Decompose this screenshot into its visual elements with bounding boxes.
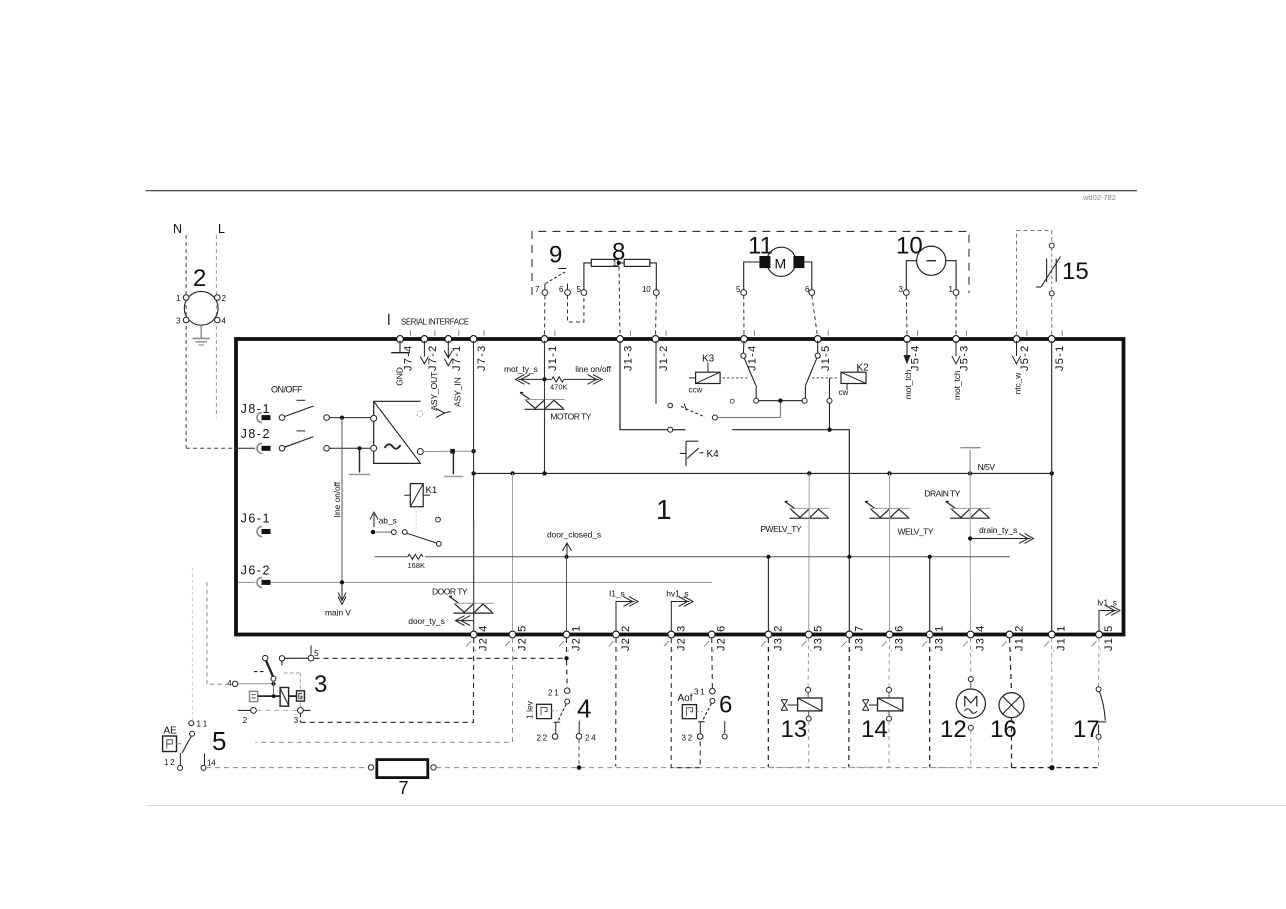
svg-text:door_ty_s: door_ty_s [408, 616, 444, 626]
wire J1-2 heavy dashed vertical to lamp [1010, 638, 1012, 692]
drain_ty_s junction dot [968, 536, 972, 540]
svg-text:J5-4: J5-4 [910, 344, 922, 371]
relay K2 coil [841, 366, 866, 390]
resistor pack 8 [577, 239, 660, 296]
svg-text:,: , [1100, 644, 1102, 653]
pin J5-4 (top edge) [904, 331, 922, 372]
switch ON/OFF (J8-1) [271, 385, 371, 421]
triac WELV_TY [865, 501, 910, 518]
wire J1-3 vertical to K4 contact line [620, 341, 668, 430]
NTC 15 [1036, 243, 1089, 296]
pin J1-2 (bottom edge) [1002, 624, 1026, 652]
svg-text:PWELV_TY: PWELV_TY [760, 524, 802, 534]
relay common wire [759, 400, 802, 402]
pin J3-2 (bottom edge) [761, 624, 785, 652]
drain pump 12 [930, 677, 986, 768]
i1_s arrow [616, 597, 638, 631]
svg-text:J7-4: J7-4 [403, 344, 415, 371]
K2 lower contact [827, 378, 832, 430]
wire J3-6 dashed vertical [888, 638, 891, 687]
junction dot rail motor triac [542, 471, 546, 475]
svg-text:J1-3: J1-3 [623, 344, 635, 371]
mot_tch arrow (J5-4) filled [903, 341, 910, 365]
svg-text:AE: AE [164, 726, 178, 737]
svg-text:WELV_TY: WELV_TY [898, 527, 934, 537]
pin J3-1 (bottom edge) [922, 624, 946, 652]
drain_ty_s arrow [970, 534, 1033, 544]
pressure switch AE 5 [163, 720, 217, 771]
wire J1-2 vertical [655, 341, 657, 404]
K1 linkage dotted [415, 507, 417, 530]
junction dot ab_s [371, 530, 375, 534]
svg-text:14: 14 [207, 759, 216, 768]
svg-text:1 2: 1 2 [164, 758, 175, 767]
svg-text:,: , [474, 644, 476, 653]
wire lamp to bus heavy dashed [1011, 718, 1013, 768]
K4 changeover contact circle [668, 403, 673, 408]
svg-text:N/5V: N/5V [978, 462, 996, 472]
svg-text:,: , [930, 644, 932, 653]
wire N dashed horizontal to J8-2 [186, 447, 237, 449]
wire resistor pin10 to J1-2 dashed [655, 295, 658, 335]
svg-text:J6-1: J6-1 [241, 512, 271, 526]
svg-text:L: L [218, 222, 225, 236]
junction dot pin5 line at J2-1 [564, 656, 568, 660]
svg-text:GND: GND [395, 367, 405, 386]
wire J3-4 dashed vertical [970, 638, 972, 677]
wire resistor junction to J1-3 dashed [619, 267, 620, 336]
svg-text:main V: main V [325, 608, 351, 618]
triac DRAIN_TY [946, 501, 991, 518]
pin J1-3 (top edge) [617, 331, 635, 372]
svg-text:line on/off: line on/off [575, 364, 611, 374]
svg-text:15: 15 [1062, 258, 1089, 285]
junction dot line on/off at J6-2 wire [340, 580, 344, 584]
pin J1-2 (top edge) [652, 331, 670, 372]
junction dot output to J7-3 line [471, 449, 475, 453]
pin J3-6 (bottom edge) [882, 624, 906, 652]
N/5V rail symbol [960, 448, 980, 474]
switch (J8-2) [279, 431, 371, 451]
svg-text:J7-1: J7-1 [451, 344, 463, 371]
pin J2-4 (bottom edge) [466, 624, 490, 652]
wire J7-3 vertical (full height) [473, 341, 475, 631]
solder square on output [450, 449, 455, 454]
svg-text:ASY_OUT: ASY_OUT [429, 372, 439, 411]
wire J3-7 heavy dashed vertical [848, 638, 851, 767]
junction dot rail left end [471, 471, 475, 475]
svg-text:16: 16 [990, 716, 1017, 743]
svg-text:4: 4 [577, 694, 591, 724]
wire J3-7 vertical lower [848, 557, 850, 631]
svg-text:J2-6: J2-6 [716, 624, 728, 651]
svg-text:7: 7 [399, 778, 409, 798]
svg-text:1: 1 [656, 494, 672, 525]
svg-text:J2-3: J2-3 [675, 624, 687, 651]
triac DOOR_TY [449, 596, 494, 613]
hv1_s arrow [671, 597, 693, 631]
converter output wire [423, 450, 471, 452]
wire switch9 pin7 to J1-1 dashed [544, 295, 546, 335]
svg-text:mot_ty_s: mot_ty_s [504, 364, 538, 374]
lamp 16 [990, 693, 1024, 743]
wire L dashed vertical [215, 235, 217, 418]
svg-text:J5-2: J5-2 [1019, 344, 1031, 371]
wire J6-2 horizontal [271, 581, 712, 583]
wire switch9 pin6 to resistor pin5 dashed U [568, 295, 584, 322]
wire N dashed vertical [185, 235, 187, 448]
svg-text:ntc_w: ntc_w [1013, 372, 1023, 395]
door_ty_s arrow [456, 616, 474, 626]
pin J2-1 (bottom edge) [559, 624, 583, 652]
pin J7-4 (top edge) [397, 331, 415, 372]
pin J2-6 (bottom edge) [704, 624, 728, 652]
bus dashed left segment [206, 767, 368, 769]
ab_s arrow [370, 512, 378, 527]
wire J3-1 heavy dashed vertical [929, 638, 931, 768]
svg-text:J1-2: J1-2 [658, 344, 670, 371]
junction dot rail pwelv [807, 471, 811, 475]
junction dot K2 to K4 line [827, 428, 831, 432]
K4 contact fixed circle [668, 427, 673, 432]
dashed J2-5 return [255, 638, 512, 742]
svg-text:J3-6: J3-6 [894, 624, 906, 651]
K1 blade end circle [436, 541, 441, 546]
svg-text:K2: K2 [857, 363, 870, 374]
junction dot rail drain [968, 471, 972, 475]
svg-text:,: , [617, 644, 619, 653]
line on/off vertical wire [341, 418, 343, 583]
svg-text:DOOR TY: DOOR TY [432, 587, 468, 597]
motor 11 [736, 233, 815, 296]
wire J6-2 loop to door lock pin4 [207, 582, 232, 684]
svg-text:K3: K3 [702, 354, 715, 365]
svg-text:1 lev: 1 lev [525, 700, 535, 719]
K4 changeover blade (dashed) [681, 407, 705, 418]
pin J2-5 (bottom edge) [505, 624, 529, 652]
motor reverse switch (right, J1-5) [802, 341, 820, 403]
lv1_s arrow [1099, 606, 1120, 631]
wire blade to relay common [717, 403, 780, 418]
wire J3-2 vertical [767, 557, 769, 631]
junction dot on J8-2 wire [357, 446, 361, 450]
svg-text:Aof: Aof [678, 693, 693, 704]
frame: top rule [146, 190, 1138, 192]
wire J2-1 vertical [566, 557, 568, 631]
junction dot 168K line J2-1 [564, 555, 568, 559]
wire door lock pin5 dashed to J2-1 column [315, 657, 567, 659]
svg-text:J3-1: J3-1 [934, 624, 946, 651]
wire J2-4 dashed vertical [300, 638, 473, 722]
svg-text:,: , [513, 644, 515, 653]
svg-text:ab_s: ab_s [379, 516, 397, 526]
svg-text:drain_ty_s: drain_ty_s [979, 525, 1017, 535]
mains filter 2 [176, 265, 227, 326]
wire J2-3 dashed loop to Aof [671, 638, 700, 768]
svg-text:ASY_IN: ASY_IN [453, 377, 463, 407]
svg-text:10: 10 [896, 233, 923, 260]
faint feed line to AE switch [191, 568, 193, 721]
svg-text:J2-2: J2-2 [620, 624, 632, 651]
svg-text:12: 12 [940, 716, 967, 743]
junction dot on J8-1 wire [340, 416, 344, 420]
pin J3-4 (bottom edge) [963, 624, 987, 652]
svg-text:11: 11 [748, 233, 773, 260]
K1 switch common wire [375, 531, 391, 533]
door switch 9 [535, 242, 570, 296]
K4 blade end circle [712, 415, 717, 420]
K1 switch blade [407, 533, 436, 543]
svg-text:J8-2: J8-2 [241, 427, 271, 441]
bus dashed mid segment [436, 767, 1010, 769]
N/5V rail [474, 472, 1052, 474]
door lock 3 [227, 646, 327, 726]
top accessory dashed box [532, 231, 969, 295]
svg-text:mot_tch: mot_tch [903, 369, 913, 399]
door open switch 17 [1073, 687, 1106, 768]
valve 13 [768, 687, 822, 767]
level switch 4 [525, 688, 597, 770]
svg-text:SERIAL INTERFACE: SERIAL INTERFACE [401, 318, 469, 327]
svg-text:J1-2: J1-2 [1014, 624, 1026, 651]
svg-text:J7-3: J7-3 [476, 344, 488, 371]
svg-text:J3-5: J3-5 [813, 624, 825, 651]
main control module box (1) [236, 339, 1124, 635]
svg-text:line on/off: line on/off [332, 481, 342, 517]
pressure switch Aof 6 [678, 688, 733, 743]
wire welv triac vertical [889, 473, 891, 631]
svg-text:J3-2: J3-2 [772, 624, 784, 651]
svg-text:168K: 168K [408, 561, 426, 570]
ASY_OUT arrow [420, 341, 428, 364]
pin J1-5 (top edge) [814, 331, 832, 372]
pin J2-3 (bottom edge) [664, 624, 688, 652]
pin J3-5 (bottom edge) [801, 624, 825, 652]
triac MOTOR_TY [520, 393, 565, 410]
svg-text:J6-2: J6-2 [241, 564, 271, 578]
svg-text:,: , [769, 644, 771, 653]
svg-text:J8-1: J8-1 [241, 402, 271, 416]
svg-text:M: M [775, 256, 787, 272]
svg-text:door_closed_s: door_closed_s [547, 530, 601, 540]
junction dot 470K line [542, 377, 546, 381]
valve 14 [849, 687, 903, 767]
rail symbol below J8-2 wire [349, 448, 371, 474]
pin J1-1 (bottom edge) [1044, 624, 1068, 652]
svg-text:13: 13 [781, 716, 808, 743]
K4 contact line right segment [732, 430, 849, 557]
pin J1-5 (bottom edge) [1092, 624, 1116, 652]
wire J3-5 dashed vertical [807, 638, 810, 687]
svg-text:,: , [1052, 644, 1054, 653]
pin J3-7 (bottom edge) [842, 624, 866, 652]
svg-text:,: , [809, 644, 811, 653]
svg-text:J1-1: J1-1 [1056, 624, 1068, 651]
svg-text:10: 10 [642, 285, 651, 294]
connector J8-1 socket [257, 413, 271, 423]
svg-text:K4: K4 [707, 449, 720, 460]
svg-text:cw: cw [839, 388, 849, 397]
K1 switch contacts [391, 530, 396, 535]
svg-text:J5-1: J5-1 [1054, 344, 1066, 371]
svg-text:9: 9 [549, 242, 562, 269]
wire J1-5 light dashed vertical [1098, 638, 1100, 687]
pin J5-2 (top edge) [1013, 331, 1031, 372]
V output mark [436, 409, 451, 418]
wire J1-1 top vertical (motor triac feed) [544, 341, 546, 474]
motor reverse switch (left, J1-4) [741, 341, 759, 403]
dashed link K3 to switch [723, 377, 749, 379]
svg-text:wd02-782: wd02-782 [1082, 193, 1116, 202]
junction dot rail J2-5 feed [510, 471, 514, 475]
junction dot 168K line K4/J3-7 [847, 555, 851, 559]
svg-text:J2-1: J2-1 [571, 624, 583, 651]
wire motor right pin to J1-5 dashed [812, 295, 818, 335]
small circle contact a [730, 399, 734, 403]
svg-text:K1: K1 [426, 485, 438, 496]
svg-text:J2-4: J2-4 [478, 624, 490, 651]
junction dot 168K line J3-1 [928, 555, 932, 559]
main V arrow [338, 585, 346, 605]
wire J3-2 heavy dashed vertical [767, 638, 769, 767]
bus heavy dashed right segment [1012, 767, 1099, 769]
pin J1-4 (top edge) [741, 331, 759, 372]
connector J8-2 socket [238, 443, 271, 453]
heater 7 [368, 760, 436, 798]
junction dot 168K line J3-2 [766, 555, 770, 559]
ground of filter 2 [193, 325, 210, 345]
wire J2-2 dashed vertical [615, 638, 617, 767]
svg-text:2: 2 [193, 265, 206, 292]
svg-text:J1-5: J1-5 [1103, 624, 1115, 651]
connector J6-2 socket [238, 577, 271, 587]
mot_tch arrow (J5-3) open [952, 341, 960, 364]
svg-text:mot_tch: mot_tch [952, 370, 962, 400]
pin J7-2 (top edge) [421, 331, 439, 372]
K4 relay symbol [680, 441, 704, 466]
svg-text:J1-5: J1-5 [820, 344, 832, 371]
svg-text:I1_s: I1_s [609, 589, 625, 599]
text SERIAL INTERFACE [388, 314, 390, 325]
junction dot bus at J1-1 column [1049, 765, 1054, 770]
svg-text:J1-1: J1-1 [547, 344, 559, 371]
svg-text:J3-7: J3-7 [853, 624, 865, 651]
wire tacho left pin to J5-4 dashed [905, 295, 908, 335]
svg-text:2 2: 2 2 [537, 734, 548, 743]
junction dot rail right end [1050, 471, 1054, 475]
wire J2-1 dashed vertical below box [566, 638, 568, 656]
svg-text:,: , [890, 644, 892, 653]
mot_ty_s / line on-off arrow line with 470K resistor [516, 375, 603, 385]
relay K3 coil [689, 363, 720, 384]
svg-text:,: , [712, 644, 714, 653]
pin J7-1 (top edge) [445, 331, 463, 372]
svg-text:,: , [567, 644, 569, 653]
pin J2-2 (bottom edge) [609, 624, 633, 652]
svg-text:,: , [672, 644, 674, 653]
svg-text:J3-4: J3-4 [975, 624, 987, 651]
svg-text:14: 14 [861, 716, 888, 743]
wire tacho right pin to J5-3 dashed [955, 295, 957, 335]
rail symbol below output wire [444, 454, 463, 477]
ntc_w arrow (J5-2) open [1012, 341, 1020, 364]
svg-text:2 4: 2 4 [585, 734, 596, 743]
svg-text:J5-3: J5-3 [959, 344, 971, 371]
svg-text:N: N [173, 222, 182, 236]
signal line 168K (sensing bus) [375, 556, 408, 558]
pin J5-3 (top edge) [953, 331, 971, 372]
pin J5-1 (top edge) [1048, 331, 1066, 372]
pin J1-1 (top edge) [541, 331, 559, 372]
wire motor left pin to J1-4 dashed [743, 295, 745, 335]
dashed link switch to K2 [812, 377, 839, 379]
svg-text:ON/OFF: ON/OFF [271, 385, 303, 395]
ASY_IN arrow [444, 341, 452, 366]
AC/DC converter (power supply) [371, 401, 424, 463]
pin J7-3 (top edge) [470, 331, 488, 372]
tacho generator 10 [896, 233, 959, 296]
junction dot relay common [778, 399, 782, 403]
wire J5-1/J1-1 right column vertical [1051, 341, 1053, 631]
svg-text:3: 3 [314, 671, 327, 698]
svg-text:ccw: ccw [689, 386, 703, 395]
svg-text:5: 5 [212, 726, 226, 756]
relay K1 [404, 484, 430, 507]
triac PWELV_TY [785, 501, 830, 518]
wire pwelv triac vertical [808, 473, 811, 631]
svg-text:3 2: 3 2 [682, 734, 693, 743]
svg-text:MOTOR TY: MOTOR TY [550, 411, 591, 421]
wire drain triac vertical [969, 473, 971, 631]
svg-text:470K: 470K [550, 383, 568, 392]
svg-text:DRAIN TY: DRAIN TY [924, 489, 960, 499]
svg-text:J7-2: J7-2 [427, 344, 439, 371]
NTC sensor 15 dashed loop [1017, 231, 1052, 336]
wire J2-5 gray vertical [512, 473, 514, 631]
wire NTC to J5-1 dashed [1051, 296, 1053, 336]
wire J2-6 dashed vertical [711, 638, 714, 688]
svg-text:1 1: 1 1 [197, 720, 208, 729]
wire J3-1 vertical [929, 557, 931, 631]
resistor 168K zigzag [408, 554, 423, 559]
svg-text:3 1: 3 1 [694, 688, 705, 697]
connector J6-1 socket [257, 527, 271, 537]
svg-text:,: , [971, 644, 973, 653]
frame: bottom light rule [146, 805, 1286, 807]
svg-text:17: 17 [1073, 716, 1100, 743]
door_closed_s arrow [563, 543, 572, 551]
junction dot rail welv [887, 471, 891, 475]
GND pin stem [399, 341, 401, 353]
svg-text:J2-5: J2-5 [517, 624, 529, 651]
svg-text:2 1: 2 1 [548, 689, 559, 698]
wire J1-1 light dashed vertical [1051, 638, 1053, 766]
GND bar [391, 352, 410, 354]
svg-text:,: , [850, 644, 852, 653]
svg-text:6: 6 [719, 692, 732, 719]
